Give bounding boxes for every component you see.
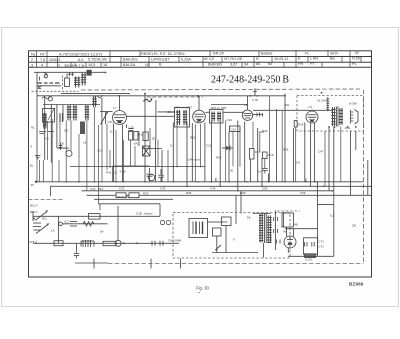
extra verticals tuning bank bbox=[48, 96, 341, 204]
coil L3b hatched bbox=[73, 105, 78, 121]
svg-text:PR: PR bbox=[298, 62, 304, 66]
svg-text:247-248-249-250 B: 247-248-249-250 B bbox=[211, 74, 289, 85]
bus B3 bbox=[82, 190, 333, 192]
wire bbox=[127, 115, 175, 117]
svg-text:30: 30 bbox=[230, 169, 234, 173]
wire into box bbox=[235, 195, 237, 224]
svg-text:0,1: 0,1 bbox=[330, 214, 334, 218]
fuse box bbox=[222, 217, 232, 226]
IF transformer T2 can bbox=[175, 108, 190, 128]
svg-text:C55: C55 bbox=[262, 186, 268, 190]
bus B4 bbox=[87, 194, 372, 196]
svg-text:3,67: 3,67 bbox=[230, 62, 237, 66]
caps column C67 C68 bbox=[274, 211, 280, 251]
svg-text:C2s: C2s bbox=[108, 120, 114, 124]
resistor R41 bbox=[89, 214, 101, 220]
svg-text:SP4 en SP17: SP4 en SP17 bbox=[175, 105, 193, 109]
wire bbox=[223, 111, 244, 113]
T1 secondary bbox=[267, 215, 271, 243]
vertical bbox=[317, 203, 319, 256]
chassis dash-dot left stub bbox=[29, 199, 65, 201]
svg-text:C59: C59 bbox=[300, 191, 306, 195]
wire bbox=[34, 71, 106, 73]
svg-text:PT: PT bbox=[310, 62, 316, 66]
junction dots bbox=[65, 181, 333, 192]
table row line 2 bbox=[29, 61, 372, 63]
vertical bbox=[283, 212, 285, 227]
T1 core bbox=[265, 213, 267, 243]
coil L4 hatched bbox=[85, 105, 90, 121]
svg-text:0,1: 0,1 bbox=[170, 144, 174, 148]
diode D1 bbox=[222, 146, 233, 151]
svg-text:R50: R50 bbox=[222, 220, 228, 224]
svg-text:SP6 en SP5: SP6 en SP5 bbox=[211, 106, 227, 110]
svg-text:REGELPL.S E DL.275Rc: REGELPL.S E DL.275Rc bbox=[141, 52, 185, 56]
bus B6 bbox=[98, 203, 160, 205]
capacitor C18a bbox=[59, 143, 63, 150]
terminal P bbox=[48, 97, 52, 101]
coil L2 bbox=[81, 73, 86, 86]
top rail B bbox=[37, 95, 285, 97]
svg-text:R14: R14 bbox=[216, 156, 222, 160]
svg-text:PL: PL bbox=[352, 62, 357, 66]
svg-text:Basisd: Basisd bbox=[261, 52, 272, 56]
heater S glyph 1 bbox=[42, 96, 50, 99]
svg-text:A,7571/01B=2021-12,5 N: A,7571/01B=2021-12,5 N bbox=[59, 52, 102, 56]
rectifier tube V5 bbox=[284, 227, 296, 253]
switch SK mark bbox=[215, 245, 221, 251]
wire bbox=[208, 221, 222, 223]
mains terminal block bbox=[189, 219, 208, 238]
wire bbox=[58, 223, 107, 225]
svg-text:C1B · Arbeid: C1B · Arbeid bbox=[136, 211, 153, 215]
svg-text:R: R bbox=[256, 57, 259, 61]
resistor R15 bbox=[294, 121, 297, 128]
svg-text:4: 4 bbox=[41, 63, 43, 67]
svg-text:15.05.11: 15.05.11 bbox=[274, 57, 289, 61]
wire bbox=[288, 255, 334, 257]
text dashes bbox=[39, 132, 54, 134]
svg-text:R23: R23 bbox=[259, 130, 265, 134]
wire stub bbox=[99, 204, 101, 210]
svg-text:R10: R10 bbox=[190, 136, 196, 140]
svg-text:B 253: B 253 bbox=[306, 257, 313, 261]
svg-text:W: W bbox=[355, 51, 359, 55]
svg-text:C24: C24 bbox=[231, 127, 237, 131]
resistor R19 bbox=[263, 152, 268, 159]
svg-text:201 A: 201 A bbox=[30, 240, 37, 244]
wire grid row left bbox=[43, 104, 100, 106]
chassis dash-dot top bbox=[81, 89, 360, 90]
svg-text:0,5: 0,5 bbox=[296, 161, 300, 165]
svg-text:UITROLBT: UITROLBT bbox=[151, 57, 170, 61]
bus B1 terminal bbox=[35, 181, 37, 183]
vertical near frame bbox=[367, 160, 369, 195]
svg-text:5A: 5A bbox=[247, 216, 251, 220]
wire bbox=[142, 148, 162, 150]
resistor R8 bbox=[134, 132, 138, 141]
wire bbox=[100, 111, 113, 113]
svg-text:1h: 1h bbox=[258, 170, 262, 174]
svg-text:DR.25: DR.25 bbox=[213, 52, 224, 56]
svg-text:1: 1 bbox=[58, 63, 60, 67]
vertical bbox=[155, 100, 157, 140]
svg-text:L7: L7 bbox=[113, 106, 117, 110]
resistor R33 bbox=[129, 193, 139, 198]
svg-text:NT: NT bbox=[40, 52, 46, 56]
capacitor marks right of V3 bbox=[257, 113, 263, 117]
svg-text:C2s 0,1: C2s 0,1 bbox=[167, 110, 177, 114]
vertical wires tube row to buses bbox=[113, 94, 356, 204]
svg-text:L AN.: L AN. bbox=[310, 57, 319, 61]
svg-text:C72: C72 bbox=[319, 245, 325, 249]
chassis dash-dot right bbox=[363, 90, 365, 264]
svg-text:601: 601 bbox=[42, 217, 47, 221]
svg-text:8,1: 8,1 bbox=[110, 130, 114, 134]
terminal circle 2 bbox=[166, 220, 170, 224]
svg-text:R15: R15 bbox=[298, 123, 304, 127]
loudspeaker SP bbox=[351, 110, 359, 125]
svg-text:L3: L3 bbox=[244, 103, 248, 107]
svg-text:4B: 4B bbox=[294, 223, 298, 227]
T3 secondary coil bbox=[217, 112, 221, 122]
wire bbox=[212, 252, 258, 254]
svg-text:N.55: N.55 bbox=[352, 56, 360, 60]
bus B5 bbox=[94, 198, 173, 200]
wire drop bbox=[159, 204, 161, 217]
svg-text:34 R: 34 R bbox=[330, 51, 338, 55]
crystal box X1 bbox=[143, 146, 151, 156]
wire bbox=[205, 111, 209, 113]
heater S glyph 2 bbox=[95, 95, 103, 98]
switch SK1 contacts bbox=[33, 218, 41, 230]
svg-text:C17: C17 bbox=[64, 220, 70, 224]
wire bbox=[113, 165, 150, 167]
table row 3 text bbox=[31, 62, 357, 68]
coil L3a hatched bbox=[67, 105, 72, 121]
vertical drop bbox=[117, 206, 119, 243]
svg-text:C10: C10 bbox=[129, 125, 135, 129]
variable cap arrow bbox=[101, 112, 109, 125]
wire bbox=[57, 147, 69, 149]
T4 core bbox=[337, 107, 338, 127]
vertical drop bbox=[32, 211, 34, 221]
variable cap arrow 2 bbox=[48, 108, 55, 120]
output transformer T4 primary bbox=[331, 107, 335, 126]
bus B1 bbox=[36, 181, 364, 183]
svg-text:R19: R19 bbox=[268, 153, 274, 157]
table row 2 text bbox=[31, 56, 360, 62]
svg-text:C49: C49 bbox=[210, 186, 216, 190]
svg-text:R33: R33 bbox=[143, 191, 149, 195]
svg-text:7,6: 7,6 bbox=[40, 58, 45, 62]
svg-text:Tr: Tr bbox=[233, 238, 236, 242]
capacitor C3 bbox=[65, 74, 70, 87]
capacitor C64 bars bbox=[152, 241, 163, 246]
svg-text:NL: NL bbox=[31, 126, 35, 130]
resistor R45 bbox=[103, 241, 116, 245]
grid cap tick bbox=[253, 88, 257, 96]
svg-text:BUIKEN: BUIKEN bbox=[208, 63, 222, 67]
switch SK2 arm bbox=[36, 223, 49, 233]
antenna coil unit dashed boundary left bbox=[62, 76, 64, 92]
choke L10 hatched bbox=[81, 240, 94, 247]
wire bbox=[158, 111, 175, 113]
wire bbox=[285, 228, 318, 230]
svg-text:Fig. 30: Fig. 30 bbox=[196, 286, 209, 291]
svg-text:50: 50 bbox=[152, 137, 156, 141]
aerial terminal bbox=[44, 73, 48, 78]
node bbox=[123, 242, 125, 244]
capacitor C24 box bbox=[230, 126, 241, 132]
svg-text:L6 CH6: L6 CH6 bbox=[317, 99, 327, 103]
antenna coil unit dashed boundary bottom bbox=[32, 90, 79, 92]
svg-text:/20521: /20521 bbox=[49, 58, 61, 62]
svg-text:NL: NL bbox=[31, 53, 36, 57]
IF transformer T3 can bbox=[210, 110, 224, 124]
capacitor C32 bbox=[262, 166, 268, 173]
mains line bbox=[33, 242, 179, 244]
T2 primary coil bbox=[176, 110, 180, 125]
node a1 bbox=[105, 72, 107, 74]
capacitor C16 bbox=[147, 168, 153, 182]
trimmer ticks bbox=[68, 73, 74, 77]
svg-text:C6A 504B: C6A 504B bbox=[168, 239, 181, 243]
svg-text:C18: C18 bbox=[59, 141, 65, 145]
junction dots mid bbox=[86, 126, 357, 167]
svg-text:·: · bbox=[186, 63, 187, 67]
ground bbox=[35, 156, 41, 159]
tiny mark under caption bbox=[198, 292, 201, 294]
vertical bbox=[216, 236, 218, 253]
svg-text:SA2: SA2 bbox=[134, 142, 140, 146]
svg-text:BALSA: BALSA bbox=[123, 63, 136, 67]
svg-text:16: 16 bbox=[103, 63, 107, 67]
svg-text:1A: 1A bbox=[51, 229, 55, 233]
tube V3 (detector) bbox=[242, 96, 252, 121]
svg-text:ZB: ZB bbox=[352, 224, 356, 228]
svg-text:C42 C43: C42 C43 bbox=[90, 187, 103, 191]
tube V1 (mixer) bbox=[113, 96, 127, 125]
vertical bbox=[225, 226, 227, 253]
svg-text:C21: C21 bbox=[206, 144, 212, 148]
node bbox=[136, 242, 138, 244]
wire right step bbox=[318, 182, 334, 205]
svg-text:C43: C43 bbox=[160, 186, 166, 190]
tube V2 (IF amp) bbox=[193, 96, 206, 123]
power transformer T1 primary bbox=[259, 214, 263, 243]
wire bbox=[253, 109, 332, 111]
T3 primary coil bbox=[211, 112, 215, 122]
fuse circle bbox=[115, 240, 121, 246]
svg-text:L9: L9 bbox=[83, 141, 87, 145]
svg-text:4V: 4V bbox=[283, 230, 287, 234]
svg-text:R26: R26 bbox=[283, 148, 289, 152]
chassis dash-dot bottom bbox=[108, 263, 364, 265]
heater S glyph 3 bbox=[144, 98, 153, 102]
dark marks right of box bbox=[60, 113, 63, 122]
svg-text:MΩ/0,1W: MΩ/0,1W bbox=[117, 195, 129, 199]
table row line 1 bbox=[29, 56, 372, 58]
switch contact pair bbox=[70, 222, 77, 227]
speaker unit dashed enclosure bbox=[297, 96, 364, 132]
resistor R44 bbox=[54, 241, 63, 246]
switch SK1 arm bbox=[35, 210, 48, 220]
capacitor C10 bbox=[127, 125, 134, 131]
svg-text:R42 L2r: R42 L2r bbox=[106, 171, 117, 175]
svg-text:R16: R16 bbox=[255, 150, 261, 154]
choke CH8 coil vertical bbox=[326, 97, 329, 112]
vertical bbox=[333, 203, 335, 256]
svg-text:L5: L5 bbox=[309, 105, 313, 109]
node dots top rail bbox=[119, 92, 323, 111]
terminal circle bbox=[160, 220, 164, 224]
svg-text:C29: C29 bbox=[227, 118, 233, 122]
wire bbox=[70, 166, 205, 168]
pot wire bbox=[250, 166, 252, 182]
meter mA bbox=[148, 174, 154, 180]
frame border bbox=[29, 51, 372, 277]
wire bbox=[75, 262, 108, 264]
table row 1 text bbox=[31, 51, 359, 56]
svg-text:BAKJES: BAKJES bbox=[123, 58, 138, 62]
iron core bar (dark) bbox=[80, 122, 85, 135]
vertical drop bbox=[57, 216, 59, 243]
bus B2 bbox=[50, 185, 371, 187]
svg-text:2: 2 bbox=[31, 58, 33, 62]
wire bbox=[253, 114, 263, 116]
svg-text:C12: C12 bbox=[97, 149, 103, 153]
dashed stub bbox=[277, 210, 300, 212]
coil L1 bbox=[74, 77, 80, 88]
tube V4 (output) bbox=[306, 110, 318, 123]
zigzag resistor WW bbox=[83, 222, 94, 226]
AVC dashed line bbox=[147, 96, 203, 98]
svg-text:Ih 5W: Ih 5W bbox=[349, 102, 357, 106]
svg-text:C4h mooi: C4h mooi bbox=[188, 157, 201, 161]
heater ticks on chassis line bbox=[94, 259, 181, 269]
svg-text:C8: C8 bbox=[64, 129, 68, 133]
svg-text:14.5: 14.5 bbox=[137, 133, 143, 137]
T1 bottom stub bbox=[262, 243, 264, 258]
svg-text:W 4,5: W 4,5 bbox=[204, 57, 214, 61]
terminal circle PU bbox=[59, 222, 63, 226]
svg-text:(4): (4) bbox=[145, 63, 150, 67]
wire into box bbox=[240, 191, 242, 214]
T2 secondary coil bbox=[183, 110, 187, 125]
svg-text:85: 85 bbox=[256, 62, 260, 66]
svg-text:5.75/34,5N: 5.75/34,5N bbox=[88, 58, 107, 62]
short ticks above bus bbox=[37, 160, 306, 182]
svg-text:801 A: 801 A bbox=[30, 210, 37, 214]
capacitor C2 bbox=[38, 77, 41, 89]
tuning gang vertical wires bbox=[37, 73, 106, 164]
svg-text:3: 3 bbox=[31, 63, 33, 67]
resistor R5 bbox=[129, 132, 133, 141]
dark row3 entries left bbox=[64, 63, 84, 68]
svg-text:0,25A: 0,25A bbox=[181, 57, 191, 61]
svg-text:/57.RO.GE: /57.RO.GE bbox=[224, 57, 243, 61]
svg-text:FL: FL bbox=[305, 51, 309, 55]
wire PU line bbox=[33, 215, 160, 217]
svg-text:R36: R36 bbox=[186, 191, 192, 195]
wire top rail bbox=[61, 93, 130, 95]
svg-text:C71: C71 bbox=[319, 240, 325, 244]
svg-text:801 A: 801 A bbox=[30, 204, 37, 208]
ground hatch bbox=[38, 86, 41, 89]
svg-text:BL: BL bbox=[30, 164, 34, 168]
filament winding box bbox=[282, 213, 294, 227]
table column ticks bbox=[37, 51, 362, 68]
svg-text:R4s: R4s bbox=[345, 126, 351, 130]
T1 top wire bbox=[253, 213, 271, 215]
svg-text:5A: 5A bbox=[100, 230, 104, 234]
wire bbox=[40, 85, 61, 87]
svg-text:C5: C5 bbox=[45, 137, 49, 141]
selenium block B250 bbox=[305, 254, 316, 258]
svg-text:EW: EW bbox=[285, 103, 290, 107]
power unit dashed enclosure bbox=[173, 213, 290, 259]
resistor R16 bbox=[250, 149, 255, 160]
wire drop bbox=[49, 186, 51, 196]
T4 secondary bbox=[339, 108, 343, 125]
box C1 bbox=[43, 109, 55, 123]
capacitor C13 bbox=[158, 169, 164, 182]
svg-text:14,5: 14,5 bbox=[88, 63, 95, 67]
capacitor C18 to ground bbox=[74, 243, 79, 258]
value dash row bbox=[38, 82, 60, 84]
dial lamp bbox=[66, 151, 72, 157]
dark coil bar in box bbox=[43, 113, 47, 129]
resistor box bbox=[213, 228, 222, 236]
resistor R31 bbox=[116, 193, 126, 198]
svg-text:6,4: 6,4 bbox=[78, 58, 83, 62]
svg-text:C 30: C 30 bbox=[252, 98, 258, 102]
svg-text:BZ966: BZ966 bbox=[349, 281, 364, 286]
wire bbox=[211, 104, 248, 106]
table row line 3 bbox=[29, 66, 372, 68]
resistor R6 bbox=[143, 132, 148, 141]
coil L5a bbox=[92, 97, 97, 108]
svg-text:45: 45 bbox=[31, 183, 35, 187]
svg-text:350,5·9,7·8: 350,5·9,7·8 bbox=[64, 63, 84, 68]
svg-text:Bx: Bx bbox=[268, 62, 273, 66]
svg-text:S 2h: S 2h bbox=[120, 169, 126, 173]
svg-text:C47: C47 bbox=[318, 150, 324, 154]
iron core choke (dark) bbox=[87, 70, 92, 76]
svg-text:34: 34 bbox=[244, 62, 248, 66]
svg-text:R39: R39 bbox=[240, 191, 246, 195]
svg-text:C42: C42 bbox=[119, 186, 125, 190]
electrolytic C71 C72 bbox=[304, 238, 318, 255]
